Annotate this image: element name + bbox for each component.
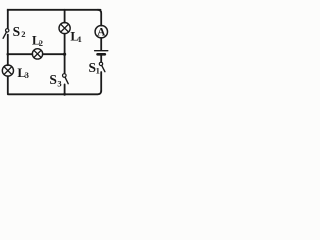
svg-text:1: 1 bbox=[78, 34, 82, 44]
wire top bbox=[8, 9, 101, 12]
lamp L2 bbox=[32, 49, 42, 59]
label S3 bbox=[49, 72, 61, 88]
wire L2 row left bbox=[8, 53, 33, 55]
ammeter A bbox=[95, 26, 107, 38]
svg-text:3: 3 bbox=[57, 78, 61, 88]
wire middle (L1 to S3) bbox=[64, 34, 66, 73]
svg-text:S: S bbox=[13, 24, 21, 39]
switch S3 bbox=[63, 74, 69, 84]
wire middle lower (S3 to bottom) bbox=[64, 84, 66, 94]
switch S2 bbox=[3, 29, 9, 39]
wire middle upper (top to L1) bbox=[64, 10, 66, 23]
svg-text:S: S bbox=[49, 72, 57, 87]
label L2 bbox=[32, 33, 43, 47]
switch S1 bbox=[99, 62, 105, 71]
lamp L3 bbox=[2, 65, 13, 76]
wire right (ammeter to battery) bbox=[100, 38, 102, 50]
wire left lower (L3 to bottom) bbox=[7, 76, 9, 93]
wire left upper (to S2) bbox=[7, 10, 9, 28]
svg-text:1: 1 bbox=[96, 66, 100, 76]
label L3 bbox=[17, 65, 28, 80]
wire right (battery to S1) bbox=[100, 56, 102, 63]
node: junction mid bbox=[63, 53, 66, 56]
svg-text:3: 3 bbox=[25, 70, 29, 80]
lamp L1 bbox=[59, 23, 70, 34]
wire bottom bbox=[8, 91, 101, 95]
label L1 bbox=[70, 28, 81, 44]
wire right lower (S1 to bottom) bbox=[100, 72, 102, 92]
wire left middle (S2 to L3) bbox=[7, 35, 9, 66]
wire top-right corner bbox=[98, 10, 101, 26]
svg-text:2: 2 bbox=[21, 29, 25, 39]
battery (long + plate, short thick - plate) bbox=[95, 51, 108, 55]
node: junction left bbox=[7, 53, 10, 56]
wire L2 row right bbox=[43, 53, 65, 55]
svg-text:2: 2 bbox=[39, 38, 43, 48]
svg-text:A: A bbox=[97, 27, 106, 39]
label S1 bbox=[89, 60, 100, 75]
label S2 bbox=[13, 24, 26, 39]
node: junction bottom bbox=[63, 93, 66, 96]
